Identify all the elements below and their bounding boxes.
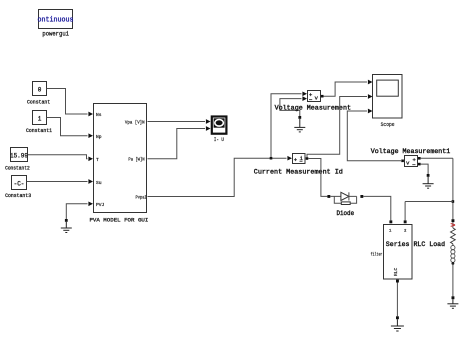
svg-text:Diode: Diode	[336, 210, 354, 218]
svg-text:2: 2	[404, 230, 407, 234]
XY graph block I-U	[212, 117, 227, 144]
current measurement block CM	[254, 154, 343, 177]
svg-text:PVJ: PVJ	[96, 202, 105, 208]
series RLC branch component (R + L vertical)	[451, 219, 456, 296]
wire U1 out1 to XY graph in1	[148, 119, 211, 124]
svg-text:Vpa [V]N: Vpa [V]N	[125, 119, 145, 125]
svg-text:+: +	[309, 92, 312, 99]
constant C2 block	[5, 148, 30, 172]
wire constant C3 to U1 in4	[27, 179, 94, 184]
svg-text:v: v	[315, 95, 319, 102]
svg-text:Current Measurement Id: Current Measurement Id	[254, 168, 343, 176]
svg-text:powergui: powergui	[42, 31, 69, 38]
svg-text:ontinuous: ontinuous	[38, 17, 74, 25]
node J1 on wire, branch up to VM in1	[270, 91, 307, 159]
wire constant C1 to U1 in2	[47, 118, 94, 139]
svg-text:-C-: -C-	[14, 181, 25, 188]
ground G3 under VM1	[423, 174, 434, 188]
ground G4 under RLC load	[391, 316, 404, 331]
constant C1 block	[26, 111, 52, 135]
wire CM out branch up to scope in2	[306, 94, 373, 160]
svg-text:+: +	[413, 157, 416, 164]
svg-text:RLC: RLC	[393, 267, 399, 276]
svg-text:Scope: Scope	[381, 122, 395, 128]
svg-text:filter: filter	[371, 251, 383, 257]
wire VM in2 to ground loop	[280, 96, 307, 116]
wire constant C2 to U1 in3	[28, 155, 94, 161]
series RLC load block (filter)	[371, 220, 445, 282]
constant C3 block	[5, 176, 31, 200]
ground G1	[61, 219, 72, 233]
svg-text:PvpaI: PvpaI	[136, 194, 147, 200]
wire VM out to scope in1	[321, 80, 373, 98]
svg-text:15.99: 15.99	[10, 153, 28, 160]
svg-text:Constant: Constant	[27, 99, 50, 105]
svg-text:T: T	[96, 157, 99, 163]
diode D1	[327, 192, 363, 218]
voltage measurement block VM1	[371, 148, 450, 167]
svg-text:Su: Su	[96, 180, 102, 186]
voltage measurement block VM	[275, 91, 351, 113]
svg-text:I- U: I- U	[214, 137, 224, 143]
svg-text:1: 1	[389, 230, 392, 234]
PVA model subsystem block U1	[89, 104, 148, 224]
constant C0 block	[27, 82, 50, 106]
wire ground G1 to U1 in5	[66, 201, 93, 219]
wire U1 out2 to XY graph in2	[148, 126, 211, 159]
powergui block	[38, 10, 74, 38]
wire U1 out3 to current measurement (with branch up to voltage measurement)	[148, 156, 293, 197]
right vertical bus wire	[405, 158, 454, 220]
svg-text:Ns: Ns	[96, 112, 102, 118]
svg-text:0: 0	[38, 87, 42, 94]
ground G2 under voltage measurement	[294, 116, 305, 132]
wire CM out down to diode anode	[308, 159, 327, 197]
wire VM1 out to scope in3	[347, 109, 401, 161]
svg-text:Constant1: Constant1	[26, 128, 52, 134]
scope block	[373, 75, 403, 128]
wire VM1 plus input from node on right bus	[418, 157, 453, 160]
svg-text:Constant3: Constant3	[5, 193, 31, 199]
wire diode cathode to RLC load in1	[363, 196, 391, 220]
wire VM1 minus to ground G3	[418, 163, 428, 174]
svg-text:Pa [W]N: Pa [W]N	[128, 157, 144, 163]
svg-text:PVA MODEL FOR GUI: PVA MODEL FOR GUI	[89, 217, 148, 224]
svg-text:Np: Np	[96, 134, 102, 140]
svg-text:1: 1	[38, 116, 42, 123]
ground G5 under RLC branch	[447, 296, 458, 308]
svg-text:+: +	[294, 157, 297, 164]
svg-text:Constant2: Constant2	[5, 165, 30, 171]
wire RLC load out to ground G4	[396, 283, 398, 317]
svg-text:v: v	[406, 160, 410, 167]
svg-text:Series RLC Load: Series RLC Load	[386, 241, 445, 249]
svg-text:Voltage Measurement1: Voltage Measurement1	[371, 148, 450, 156]
wire constant C0 to U1 in1	[47, 89, 94, 117]
